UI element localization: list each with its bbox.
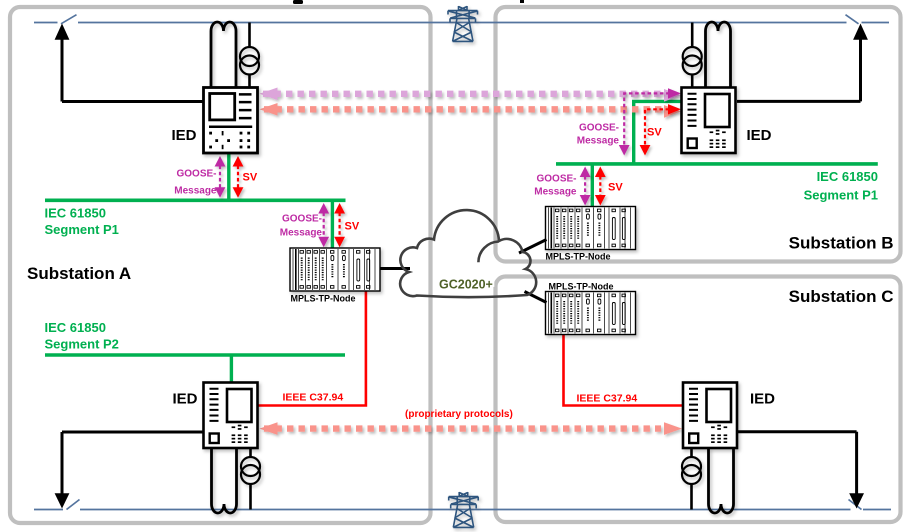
svg-text:Segment P1: Segment P1: [804, 188, 878, 203]
power feeder wire substation B top: [737, 36, 861, 101]
GOOSE arrow IED A to bus (magenta dashed, double head): [215, 156, 226, 198]
CT coil below IED C: [709, 448, 734, 513]
svg-text:Segment P2: Segment P2: [45, 337, 119, 352]
transmission tower bottom: [449, 492, 479, 527]
feeder arrow up (A top): [55, 24, 70, 40]
svg-text:GOOSE-: GOOSE-: [282, 214, 322, 225]
VT circles above IED B: [683, 23, 702, 88]
IEC 61850 station bus P2 (substation A): [45, 353, 345, 357]
SV arrow into IED B (red dashed elbow): [640, 104, 681, 155]
disconnector switch bottom-left: [67, 500, 80, 510]
svg-text:IED: IED: [171, 127, 196, 144]
svg-text:Substation C: Substation C: [789, 287, 894, 306]
svg-text:GC2020+: GC2020+: [439, 278, 493, 292]
svg-text:GOOSE-: GOOSE-: [176, 169, 216, 180]
svg-text:MPLS-TP-Node: MPLS-TP-Node: [546, 252, 611, 262]
IED B device: [682, 88, 736, 154]
green drop bus P1 to MPLS node A: [331, 200, 334, 249]
green drop bus P1 B to MPLS node B: [591, 164, 594, 207]
svg-text:IEC 61850: IEC 61850: [45, 206, 106, 221]
IED C device: [683, 383, 737, 449]
svg-text:IED: IED: [172, 391, 197, 408]
svg-text:Substation B: Substation B: [789, 234, 894, 253]
svg-text:IEEE C37.94: IEEE C37.94: [577, 393, 638, 405]
cropped title text remnants at top edge: [293, 0, 524, 4]
svg-text:MPLS-TP-Node: MPLS-TP-Node: [291, 294, 356, 304]
SV arrow bus B to MPLS B (red dashed, double head): [595, 167, 606, 206]
substation B boundary box: [496, 7, 901, 262]
GOOSE arrow into IED B (magenta dashed elbow): [619, 88, 681, 155]
svg-text:GOOSE-: GOOSE-: [536, 174, 576, 185]
CT coil above IED A: [211, 22, 236, 88]
MPLS-TP node B: [546, 207, 636, 250]
red IEEE C37.94 link C: [564, 334, 684, 406]
substation C boundary box: [496, 277, 901, 523]
transmission tower top: [448, 6, 478, 41]
feeder arrow down (A bottom): [55, 493, 70, 508]
svg-text:IED: IED: [747, 127, 772, 144]
svg-text:IEC 61850: IEC 61850: [817, 169, 878, 184]
svg-text:Message: Message: [534, 187, 577, 198]
CT coil below IED A2: [212, 448, 237, 513]
GOOSE arrow bus to MPLS A (magenta dashed, double head): [318, 203, 329, 247]
substation A boundary box: [10, 7, 431, 523]
salmon SV tunnel dotted row: [260, 103, 682, 118]
VT circles above IED A: [240, 23, 259, 88]
IED A2 device: [204, 383, 258, 449]
green elbow IED B to bus P1 B: [634, 101, 682, 163]
MPLS-TP node C: [546, 292, 636, 335]
bottom transmission line (blue): [34, 500, 891, 510]
svg-text:GOOSE-: GOOSE-: [579, 123, 619, 134]
SV arrow IED A to bus (red dashed, double head): [233, 156, 244, 198]
svg-text:Message: Message: [280, 228, 323, 239]
SV arrow bus to MPLS A (red dashed, double head): [334, 203, 345, 247]
IEC 61850 station bus P1 (substation A): [45, 199, 346, 203]
svg-text:SV: SV: [345, 221, 360, 233]
green drop bus P2 to IED A2: [230, 355, 233, 383]
power feeder wire substation A top: [62, 36, 203, 102]
svg-text:MPLS-TP-Node: MPLS-TP-Node: [549, 282, 614, 292]
red IEEE C37.94 link A: [258, 291, 366, 406]
feeder arrow up (B top): [853, 24, 868, 40]
power feeder wire substation C bottom: [737, 432, 857, 496]
svg-text:(proprietary protocols): (proprietary protocols): [405, 409, 513, 420]
MPLS-TP node A: [290, 248, 380, 291]
VT circles below IED A2: [241, 448, 260, 510]
IED A device: [204, 88, 258, 154]
disconnector switch top-left: [61, 15, 77, 24]
disconnector switch bottom-right: [849, 500, 862, 510]
GOOSE arrow bus B to MPLS B (magenta dashed, double head): [580, 167, 591, 206]
svg-text:Message: Message: [577, 136, 620, 147]
VT circles below IED C: [682, 448, 701, 510]
green drop IED A to bus P1: [227, 153, 230, 200]
top transmission line (blue): [34, 15, 889, 24]
svg-text:IEEE C37.94: IEEE C37.94: [283, 392, 344, 404]
WAN cloud GC2020+: [400, 210, 536, 297]
CT coil above IED B: [706, 22, 731, 88]
svg-text:Message: Message: [174, 186, 217, 197]
wire MPLS A to cloud: [380, 267, 410, 270]
wire cloud to MPLS C: [525, 292, 547, 303]
svg-text:SV: SV: [647, 127, 662, 139]
svg-text:SV: SV: [608, 182, 623, 194]
svg-text:Segment P1: Segment P1: [45, 222, 119, 237]
svg-text:IEC 61850: IEC 61850: [45, 320, 106, 335]
disconnector switch top-right: [846, 15, 859, 24]
violet GOOSE tunnel dotted row: [260, 88, 682, 102]
power feeder wire substation A bottom: [62, 432, 204, 496]
IEC 61850 station bus P1 (substation B): [556, 162, 878, 166]
svg-text:IED: IED: [750, 391, 775, 408]
feeder arrow down (C bottom): [849, 493, 864, 508]
salmon proprietary tunnel dotted row (bottom): [260, 422, 683, 435]
svg-text:Substation A: Substation A: [27, 264, 131, 283]
wire cloud to MPLS B: [519, 240, 547, 254]
svg-text:SV: SV: [243, 172, 258, 184]
